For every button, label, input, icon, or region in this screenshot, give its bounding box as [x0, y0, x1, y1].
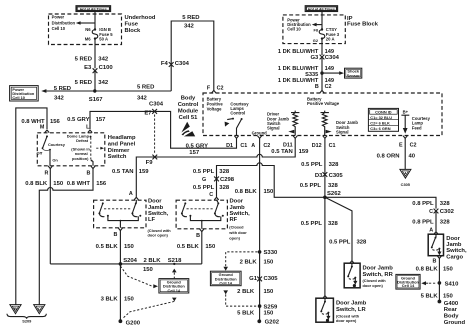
- driver door jamb switch signal label: [267, 112, 289, 131]
- svg-text:S330: S330: [264, 250, 278, 256]
- svg-text:150: 150: [143, 267, 154, 273]
- svg-text:150: 150: [443, 294, 454, 300]
- svg-text:Door Jamb: Door Jamb: [363, 265, 394, 271]
- splice S330: [258, 250, 262, 254]
- dashed reference S330 to ground dist box: [226, 252, 258, 267]
- svg-text:159: 159: [139, 169, 150, 175]
- wire 1 DK BLU/WHT 149 C304 to S335: [321, 57, 323, 90]
- connector C304 body dashes: [154, 115, 156, 155]
- svg-text:S410: S410: [445, 282, 459, 288]
- dashed reference ground dist box to G200: [172, 298, 177, 302]
- splice S262: [323, 196, 327, 200]
- ground distribution cell 14 box (S410): [396, 274, 420, 289]
- svg-text:Door: Door: [148, 199, 162, 205]
- svg-text:Cell 14: Cell 14: [168, 288, 181, 293]
- svg-text:S204: S204: [123, 258, 137, 264]
- svg-text:Switch, LR: Switch, LR: [336, 307, 366, 313]
- svg-text:157: 157: [96, 117, 107, 123]
- svg-text:0.5 GRY: 0.5 GRY: [186, 144, 208, 150]
- svg-text:Jamb: Jamb: [446, 242, 462, 248]
- svg-text:C2= 6 BLK: C2= 6 BLK: [370, 121, 390, 126]
- svg-text:C: C: [429, 209, 433, 215]
- wire: S335 to shock sensor: [322, 72, 340, 74]
- svg-text:5 BLK: 5 BLK: [237, 311, 255, 317]
- svg-text:C1= 32 BLU: C1= 32 BLU: [370, 115, 392, 120]
- svg-text:Jamb: Jamb: [230, 205, 246, 211]
- svg-text:2 BLK: 2 BLK: [240, 260, 258, 266]
- SECTION: dimmer switch: [7, 108, 136, 324]
- SECTION: door jamb switches: [94, 163, 467, 323]
- svg-text:F4: F4: [161, 61, 169, 67]
- svg-text:G: G: [202, 177, 206, 183]
- svg-text:328: 328: [440, 219, 451, 225]
- headlamp and panel dimmer switch box: [37, 133, 105, 166]
- svg-text:C304: C304: [149, 102, 164, 108]
- hot at all times label (underhood): [76, 6, 111, 12]
- svg-text:Signal: Signal: [267, 126, 280, 131]
- ground run wire 2 BLK 150: [50, 263, 202, 265]
- wire 0.5 GRY 157 BCM D1 to dimmer: [90, 111, 237, 148]
- ground distribution cell 14 box (S204/S218): [159, 279, 189, 293]
- SECTION: grounds: [50, 250, 465, 326]
- svg-text:Hot at All Times: Hot at All Times: [80, 8, 107, 12]
- svg-text:Off: Off: [37, 151, 43, 156]
- svg-text:Control: Control: [230, 111, 245, 116]
- splice S335: [320, 71, 323, 74]
- door jamb switch signal label: [336, 120, 358, 134]
- wire 0.8 BLK 150 dimmer R to S204 run: [49, 169, 51, 264]
- svg-text:Door: Door: [230, 199, 244, 205]
- svg-text:0.5 PPL: 0.5 PPL: [301, 221, 323, 227]
- svg-text:Switch,: Switch,: [230, 211, 251, 217]
- svg-text:C305: C305: [401, 182, 411, 187]
- svg-text:150: 150: [264, 289, 275, 295]
- svg-text:C298: C298: [220, 177, 235, 183]
- svg-text:0.5 PPL: 0.5 PPL: [301, 162, 323, 168]
- svg-text:with door: with door: [228, 230, 247, 235]
- svg-text:Sensor: Sensor: [347, 73, 361, 78]
- svg-text:and Panel: and Panel: [108, 142, 136, 148]
- svg-text:G1: G1: [249, 276, 258, 282]
- svg-text:328: 328: [219, 185, 230, 191]
- wire 5 RED up-over to BCM pin F: [171, 21, 214, 91]
- svg-text:N6: N6: [85, 27, 91, 32]
- svg-text:150: 150: [205, 244, 216, 250]
- dimmer interior: dome lamp defeat contact: [90, 136, 105, 166]
- svg-text:0.5 PPL: 0.5 PPL: [329, 240, 351, 246]
- svg-text:F8: F8: [313, 27, 318, 32]
- svg-text:R: R: [44, 171, 48, 177]
- svg-text:150: 150: [264, 189, 275, 195]
- wire 0.8 PPL 328 C302 to cargo switch A: [435, 211, 437, 231]
- svg-text:0.5 TAN: 0.5 TAN: [112, 169, 134, 175]
- hot at all times label (IP): [305, 6, 337, 12]
- svg-text:G2: G2: [313, 38, 319, 43]
- svg-text:B: B: [113, 232, 117, 238]
- svg-text:RF: RF: [230, 217, 238, 223]
- svg-text:B+: B+: [403, 110, 409, 115]
- splice S259: [258, 304, 262, 308]
- door jamb switch LF interior: [98, 200, 141, 228]
- svg-text:Door Jamb: Door Jamb: [336, 301, 367, 307]
- svg-text:Cell 14: Cell 14: [219, 280, 232, 285]
- IP fuse block box: [283, 15, 345, 44]
- svg-text:328: 328: [219, 169, 230, 175]
- svg-text:Power: Power: [52, 14, 65, 19]
- svg-text:B: B: [14, 306, 17, 311]
- battery positive voltage label (right): [307, 96, 340, 106]
- pull-up resistor to D12: [321, 111, 332, 136]
- B+ courtesy lamp feed: [401, 110, 430, 134]
- svg-text:S262: S262: [327, 191, 341, 197]
- svg-text:C2: C2: [410, 142, 417, 148]
- svg-text:Switch, RR: Switch, RR: [363, 272, 394, 278]
- svg-text:328: 328: [440, 201, 451, 207]
- svg-text:150: 150: [443, 267, 454, 273]
- svg-text:0.5 BLK: 0.5 BLK: [177, 244, 200, 250]
- svg-text:C302: C302: [440, 209, 455, 215]
- svg-text:150: 150: [124, 297, 135, 303]
- svg-text:Fuse: Fuse: [125, 22, 139, 28]
- svg-text:Headlamp: Headlamp: [108, 135, 136, 141]
- wire 5 RED 342 fuse to C100: [94, 40, 96, 69]
- svg-text:M: M: [40, 125, 45, 131]
- connector triangle S209 B: [10, 305, 21, 314]
- svg-text:156: 156: [96, 181, 107, 187]
- svg-text:Body: Body: [181, 96, 196, 102]
- svg-text:M6: M6: [85, 36, 91, 41]
- svg-text:Module: Module: [178, 108, 199, 114]
- wire: branch to power distribution arrow (IP): [316, 24, 322, 26]
- svg-text:3 BLK: 3 BLK: [101, 297, 119, 303]
- svg-text:0.5 GRY: 0.5 GRY: [67, 117, 89, 123]
- svg-text:Distribution: Distribution: [52, 20, 76, 25]
- svg-text:Control: Control: [178, 102, 199, 108]
- dimmer interior: courtesy switch: [37, 135, 66, 165]
- SECTION: top-left underhood fuse block: [10, 6, 214, 104]
- wire: hot feed into fuse: [94, 12, 96, 29]
- svg-text:5 BLK: 5 BLK: [421, 294, 439, 300]
- wire 0.5 BLK 150 LF B to S204: [119, 231, 121, 264]
- svg-text:1 DK BLU/WHT: 1 DK BLU/WHT: [278, 49, 319, 55]
- svg-text:Switch,: Switch,: [148, 211, 169, 217]
- svg-text:40: 40: [409, 154, 416, 160]
- svg-text:Cell 10: Cell 10: [52, 26, 66, 31]
- svg-text:C2: C2: [263, 143, 270, 149]
- svg-text:B: B: [315, 84, 319, 90]
- svg-text:0.8 BLK: 0.8 BLK: [25, 181, 48, 187]
- svg-text:0.5 PPL: 0.5 PPL: [300, 183, 322, 189]
- wire 0.5 PPL 328 RF switch to S262: [217, 163, 437, 209]
- door jamb switch LR box: [323, 296, 327, 299]
- door jamb switch LR name: [336, 301, 367, 324]
- svg-text:2 BLK: 2 BLK: [144, 258, 162, 264]
- svg-text:S167: S167: [89, 97, 103, 103]
- svg-text:2 BLK: 2 BLK: [237, 289, 255, 295]
- svg-text:open): open): [229, 236, 240, 241]
- svg-text:position): position): [72, 156, 89, 161]
- wire 0.5 TAN 159 BCM D11 to LF door switch: [136, 138, 295, 197]
- svg-text:C305: C305: [264, 276, 279, 282]
- courtesy lamps control switch: [225, 118, 243, 136]
- svg-text:5 RED: 5 RED: [54, 86, 71, 92]
- svg-text:0.5 PPL: 0.5 PPL: [193, 185, 215, 191]
- svg-text:Positive Voltage: Positive Voltage: [307, 101, 340, 106]
- door jamb switch RF name: [228, 199, 250, 241]
- ground distribution cell 14 box (S330/S259): [210, 271, 241, 286]
- underhood fuse block box: [49, 14, 122, 45]
- wire 0.5 BLK 150 RF B to ground run: [201, 232, 203, 264]
- main 5 RED feed wire across: [46, 90, 172, 92]
- svg-text:1 DK BLU/WHT: 1 DK BLU/WHT: [278, 66, 319, 72]
- svg-text:F: F: [207, 85, 211, 91]
- svg-text:0.8 ORN: 0.8 ORN: [377, 154, 400, 160]
- svg-text:150: 150: [264, 311, 275, 317]
- svg-text:C304: C304: [175, 61, 190, 67]
- headlamp and panel dimmer switch name: [108, 135, 136, 160]
- svg-text:5 RED: 5 RED: [75, 56, 92, 62]
- svg-text:328: 328: [328, 221, 339, 227]
- svg-text:G202: G202: [265, 320, 280, 326]
- pull-up resistor to D11: [288, 111, 299, 136]
- wire 5 RED 342 C100 to S167: [94, 71, 96, 91]
- svg-text:0.5 BLK: 0.5 BLK: [96, 244, 119, 250]
- power distribution cell 10 reference (in underhood block): [52, 14, 76, 31]
- svg-text:149: 149: [325, 49, 334, 55]
- body control module name: [178, 96, 199, 121]
- svg-text:CONN ID: CONN ID: [375, 109, 392, 114]
- svg-text:Cargo: Cargo: [446, 254, 463, 260]
- svg-text:door open): door open): [336, 318, 357, 323]
- svg-text:C2: C2: [325, 84, 332, 90]
- svg-text:Fuse Block: Fuse Block: [347, 21, 379, 27]
- svg-text:C100: C100: [99, 65, 114, 71]
- svg-text:328: 328: [328, 183, 339, 189]
- wire 0.8 WHT 156 dimmer M to S209 B: [16, 108, 47, 305]
- svg-text:D3: D3: [315, 173, 323, 179]
- svg-text:342: 342: [98, 56, 109, 62]
- svg-text:Cell 10: Cell 10: [12, 95, 25, 100]
- battery positive voltage label (left): [207, 96, 224, 111]
- svg-text:342: 342: [184, 24, 195, 30]
- svg-text:0.8 WHT: 0.8 WHT: [67, 181, 91, 187]
- door jamb switch LF box: [94, 200, 146, 228]
- wire 3 BLK 150 S204 to G200: [119, 264, 121, 321]
- underhood fuse block name: [125, 15, 156, 34]
- fuse CTSY Fuse 3 20 A: [313, 27, 340, 43]
- svg-text:Cell 14: Cell 14: [402, 283, 415, 288]
- dashed reference S410 to ground dist box: [429, 282, 437, 284]
- splice S167: [93, 89, 96, 92]
- wire 0.5 PPL 328 S262 to RR switch: [325, 197, 352, 261]
- svg-text:Courtesy: Courtesy: [48, 142, 66, 147]
- svg-text:G200: G200: [126, 320, 141, 326]
- svg-text:150: 150: [264, 260, 275, 266]
- wire 1 DK BLU/WHT 149 fuse to C304: [321, 40, 323, 56]
- door jamb switch RR box: [350, 261, 354, 264]
- door jamb switch RF box: [176, 200, 227, 229]
- svg-text:B: B: [432, 259, 436, 265]
- svg-text:Signal: Signal: [336, 130, 349, 135]
- CONN ID table: [368, 108, 398, 131]
- ground G400 rear body ground: [438, 300, 442, 304]
- svg-text:Ground: Ground: [252, 130, 268, 135]
- IP fuse block name: [347, 16, 379, 27]
- svg-text:Hot at All Times: Hot at All Times: [308, 8, 335, 12]
- svg-text:5 RED: 5 RED: [75, 80, 92, 86]
- connector C305 triangle (courtesy lamp feed): [400, 169, 411, 186]
- svg-text:C1: C1: [240, 143, 247, 149]
- SECTION: body control module: [67, 85, 442, 321]
- svg-text:20 A: 20 A: [326, 37, 335, 42]
- power distribution cell 10 box (left): [10, 86, 39, 101]
- svg-text:159: 159: [299, 149, 310, 155]
- svg-text:1 DK BLU/WHT: 1 DK BLU/WHT: [278, 78, 319, 84]
- wire: branch to power distribution arrow: [79, 22, 95, 24]
- svg-text:C304: C304: [325, 55, 340, 61]
- svg-text:Switch: Switch: [108, 154, 127, 160]
- svg-text:A: A: [429, 228, 433, 234]
- svg-text:0.5 TAN: 0.5 TAN: [271, 149, 293, 155]
- svg-text:Door: Door: [446, 236, 460, 242]
- svg-text:A: A: [251, 143, 255, 149]
- SECTION: top-right IP fuse block: [278, 6, 379, 93]
- svg-text:342: 342: [54, 95, 65, 101]
- svg-text:Cell 10: Cell 10: [287, 27, 301, 32]
- svg-text:Cell 51: Cell 51: [179, 115, 198, 121]
- svg-text:D12: D12: [312, 143, 322, 149]
- svg-text:Body: Body: [444, 314, 459, 320]
- svg-text:Voltage: Voltage: [207, 107, 222, 112]
- svg-text:E3: E3: [84, 65, 92, 71]
- door jamb switch RF interior: [181, 200, 224, 229]
- splice S204: [119, 262, 123, 266]
- svg-text:149: 149: [325, 66, 334, 72]
- door jamb switch LF name: [148, 199, 172, 238]
- splice S410: [438, 281, 442, 285]
- svg-text:0.8 BLK: 0.8 BLK: [235, 189, 258, 195]
- svg-text:Defeat: Defeat: [76, 138, 89, 143]
- svg-text:0.8 BLK: 0.8 BLK: [416, 267, 439, 273]
- svg-text:door open): door open): [363, 283, 384, 288]
- svg-text:342: 342: [137, 95, 148, 101]
- svg-text:0.5 PPL: 0.5 PPL: [193, 169, 215, 175]
- dashed reference ground dist box to S259: [223, 290, 228, 294]
- svg-text:C: C: [38, 306, 41, 311]
- svg-text:G3: G3: [310, 55, 319, 61]
- wire 0.5 PPL 328 BCM D12 to S262: [324, 138, 326, 197]
- svg-text:E: E: [399, 142, 403, 148]
- door jamb switch RR name: [363, 265, 394, 288]
- svg-text:Dimmer: Dimmer: [108, 148, 130, 154]
- body control module U1 box: [203, 93, 442, 136]
- svg-text:328: 328: [357, 240, 368, 246]
- svg-text:Block: Block: [125, 28, 142, 34]
- svg-text:F9: F9: [146, 160, 154, 166]
- svg-text:C2: C2: [217, 85, 224, 91]
- wire 0.8 BLK 150 BCM A to grounds: [259, 138, 261, 321]
- fuse IGN B Fuse 5 50 A: [85, 27, 113, 42]
- svg-text:C3= 6 GRN: C3= 6 GRN: [370, 126, 390, 131]
- svg-text:Switch,: Switch,: [446, 248, 467, 254]
- ground G202: [257, 319, 261, 323]
- door jamb switch cargo box: [428, 234, 443, 256]
- svg-text:C: C: [209, 192, 213, 198]
- svg-text:0.8 PPL: 0.8 PPL: [412, 201, 434, 207]
- svg-text:E7: E7: [144, 111, 152, 117]
- svg-text:Ground: Ground: [444, 320, 466, 326]
- svg-text:Jamb: Jamb: [148, 205, 164, 211]
- svg-text:C1: C1: [329, 143, 336, 149]
- svg-text:D11: D11: [283, 142, 293, 148]
- svg-text:5 RED: 5 RED: [137, 84, 154, 90]
- ESD warning triangle: [179, 122, 195, 137]
- svg-text:Feed: Feed: [412, 126, 422, 131]
- svg-text:LF: LF: [148, 217, 156, 223]
- svg-text:Underhood: Underhood: [125, 15, 156, 21]
- svg-text:150: 150: [124, 244, 135, 250]
- svg-text:150: 150: [53, 181, 64, 187]
- svg-text:C305: C305: [329, 173, 344, 179]
- S209 brace: [7, 314, 46, 319]
- wire 0.8 BLK 150 cargo B to S410: [438, 258, 440, 301]
- svg-text:S209: S209: [22, 319, 32, 324]
- dome lamp defeat label: [67, 133, 91, 161]
- svg-text:door open): door open): [148, 233, 169, 238]
- svg-text:50 A: 50 A: [99, 37, 108, 42]
- power distribution cell 10 reference (in IP block): [287, 18, 311, 32]
- svg-text:0.8 PPL: 0.8 PPL: [412, 219, 434, 225]
- courtesy lamps control label: [230, 102, 249, 116]
- svg-text:(Closed: (Closed: [229, 225, 244, 230]
- shock sensor box: [345, 68, 362, 78]
- svg-text:G400: G400: [444, 301, 459, 307]
- svg-text:B: B: [86, 171, 90, 177]
- wire: hot feed into CTSY fuse: [321, 12, 323, 29]
- svg-text:B: B: [196, 233, 200, 239]
- wire 0.8 WHT 156 dimmer B to S209 C: [39, 169, 93, 305]
- svg-text:157: 157: [189, 150, 200, 156]
- wire 0.8 ORN 40: [404, 138, 406, 169]
- dashed reference S204 to ground dist box: [120, 266, 151, 286]
- svg-text:On: On: [52, 158, 58, 163]
- svg-text:5 RED: 5 RED: [182, 15, 199, 21]
- svg-text:A: A: [129, 191, 133, 197]
- svg-text:156: 156: [50, 119, 61, 125]
- door jamb switch cargo name: [446, 236, 467, 261]
- ground G200: [119, 319, 123, 323]
- wire 0.5 PPL 328 S262 to LR switch: [324, 197, 326, 296]
- svg-text:328: 328: [329, 162, 340, 168]
- svg-text:342: 342: [98, 80, 109, 86]
- svg-text:Rear: Rear: [444, 307, 458, 313]
- connector triangle S209 C: [34, 305, 45, 314]
